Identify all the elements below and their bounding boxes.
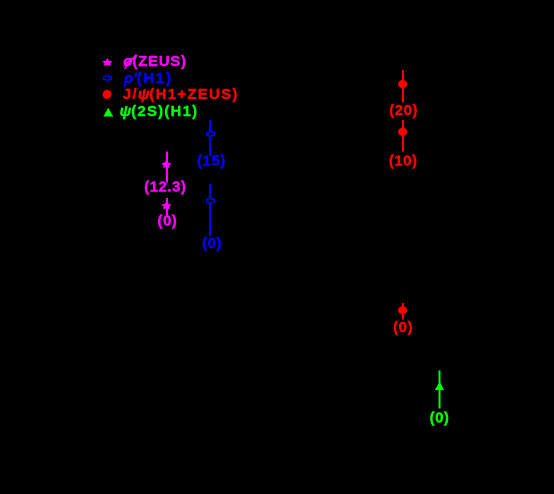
svg-text:J/ψ(H1+ZEUS): J/ψ(H1+ZEUS) [123,86,239,103]
svg-text:(0): (0) [393,319,413,336]
svg-text:(0): (0) [157,213,177,230]
svg-text:ρ′(H1): ρ′(H1) [123,70,173,87]
svg-text:(0): (0) [430,409,450,426]
svg-text:(10): (10) [389,153,418,170]
svg-text:(20): (20) [389,102,418,119]
svg-text:(0): (0) [202,235,222,252]
svg-text:(12.3): (12.3) [144,179,186,196]
svg-text:(15): (15) [197,152,226,169]
svg-text:ø(ZEUS): ø(ZEUS) [123,53,186,70]
svg-text:ψ(2S)(H1): ψ(2S)(H1) [120,103,199,120]
